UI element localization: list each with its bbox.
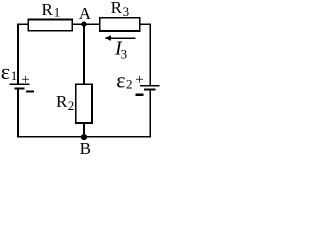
wire R1 to node A (73, 23, 86, 25)
wire R3 to top-right corner (140, 23, 151, 25)
svg-text:ε: ε (116, 67, 125, 92)
svg-text:2: 2 (68, 98, 75, 113)
wire bottom (17, 136, 151, 138)
svg-text:R: R (56, 92, 68, 111)
wire E1 to bottom-left corner (17, 90, 19, 138)
svg-text:2: 2 (126, 76, 133, 91)
wire top-left segment (17, 23, 28, 25)
wire left vertical (17, 23, 19, 84)
svg-text:3: 3 (123, 4, 130, 19)
label minus E1 (26, 90, 34, 92)
svg-text:3: 3 (121, 47, 128, 62)
node B (81, 134, 87, 140)
wire node A to R2 (83, 24, 85, 84)
svg-text:R: R (111, 0, 123, 17)
wire E2 to bottom-right corner (149, 91, 151, 138)
label minus E2 (135, 94, 143, 96)
battery E2 short plate (144, 88, 156, 90)
resistor R1 (28, 20, 72, 31)
battery E1 short plate (15, 87, 25, 89)
svg-text:ε: ε (1, 59, 10, 84)
svg-text:+: + (135, 72, 143, 88)
resistor R3 (100, 18, 140, 31)
wire R2 to node B (83, 123, 85, 137)
svg-text:A: A (79, 4, 92, 23)
current arrow I3 (104, 36, 135, 41)
wire node A to R3 (84, 23, 100, 25)
battery E2 long plate (140, 85, 160, 87)
svg-text:1: 1 (54, 5, 61, 20)
battery E1 long plate (10, 83, 30, 85)
svg-text:+: + (21, 72, 29, 88)
resistor R2 (76, 84, 92, 123)
svg-text:B: B (80, 139, 91, 156)
svg-text:R: R (42, 0, 54, 19)
wire right vertical upper (149, 23, 151, 85)
svg-text:1: 1 (11, 68, 17, 83)
node A (81, 22, 86, 27)
